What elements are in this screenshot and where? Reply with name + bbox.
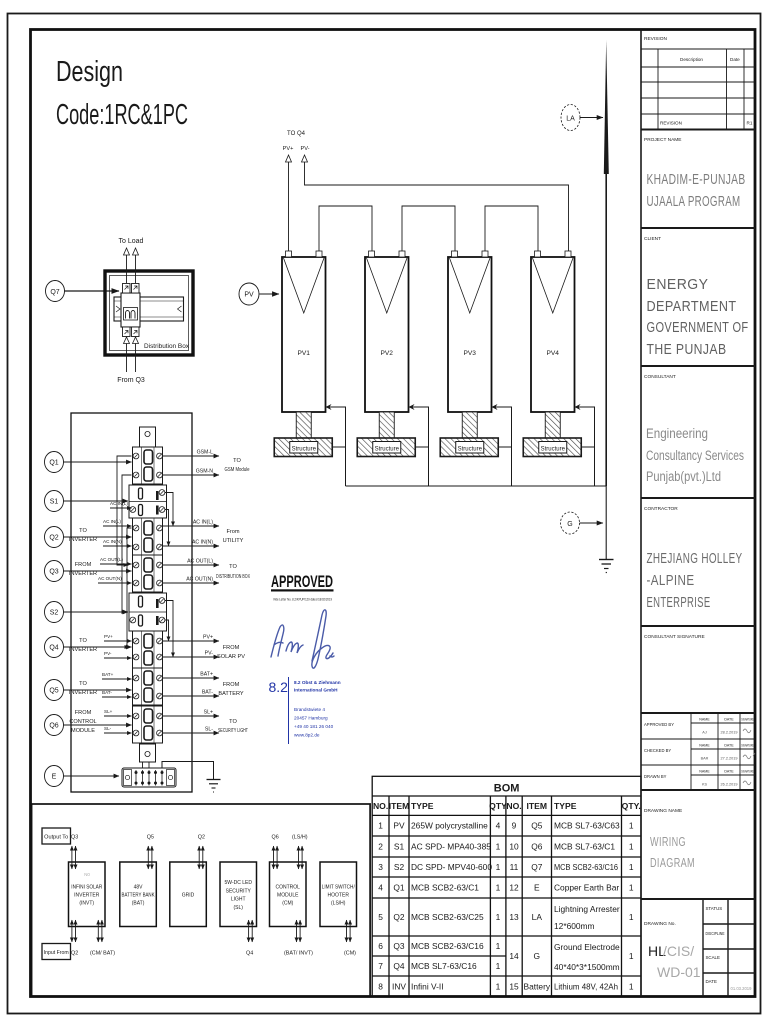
wire GSM-L out	[163, 450, 220, 457]
wire SL+ in	[104, 709, 132, 716]
svg-text:DC SPD- MPV40-600: DC SPD- MPV40-600	[411, 862, 492, 872]
svg-text:AC IN(N): AC IN(N)	[192, 540, 213, 546]
svg-text:TYPE: TYPE	[554, 801, 577, 811]
wire pair Q2-GRID	[199, 846, 203, 869]
svg-text:Distribution Box: Distribution Box	[144, 343, 190, 350]
node Q7	[46, 281, 65, 302]
svg-text:International GmbH: International GmbH	[294, 688, 338, 693]
wire AC IN(L) in	[103, 519, 132, 526]
svg-text:13: 13	[509, 912, 519, 922]
wire pair LSH-CM	[299, 846, 303, 869]
wire internal left 1	[117, 456, 132, 565]
security light SL	[220, 862, 257, 927]
svg-text:15: 15	[509, 981, 519, 991]
svg-text:1: 1	[496, 883, 501, 893]
grid	[170, 862, 207, 927]
wire SL- in	[104, 726, 132, 733]
svg-text:BAT-: BAT-	[102, 690, 112, 695]
svg-text:01.03.2019: 01.03.2019	[731, 986, 753, 991]
limit switch hooter LS/H	[320, 862, 357, 927]
svg-text:SIGNATURE: SIGNATURE	[741, 770, 754, 774]
breaker in distribution box	[121, 284, 140, 337]
svg-text:INVERTER: INVERTER	[69, 690, 97, 696]
svg-text:48V: 48V	[134, 884, 144, 890]
svg-text:REVISION: REVISION	[660, 121, 682, 126]
svg-text:FROM: FROM	[75, 562, 92, 568]
wire Q6 to terminal strip	[64, 724, 132, 726]
svg-text:5W-DC LED: 5W-DC LED	[225, 880, 253, 886]
svg-text:AC OUT(N): AC OUT(N)	[186, 577, 213, 583]
svg-text:DRAWING No.: DRAWING No.	[644, 921, 676, 927]
svg-text:3: 3	[378, 862, 383, 872]
wire Q5 to terminal strip	[64, 689, 132, 691]
svg-text:Description: Description	[680, 57, 703, 62]
wire S1 to AC rows	[165, 493, 173, 527]
block diagram enclosure	[32, 804, 371, 997]
wire Q2 to terminal strip	[64, 536, 132, 538]
breaker module Q2	[133, 518, 163, 555]
svg-text:PV-: PV-	[104, 651, 112, 656]
wire from Q3	[124, 337, 139, 372]
svg-text:GSM-L: GSM-L	[197, 450, 214, 456]
node Q3	[45, 561, 64, 582]
svg-text:N0: N0	[84, 872, 90, 877]
svg-text:Consultancy Services: Consultancy Services	[646, 448, 744, 463]
panel enclosure	[71, 413, 192, 792]
svg-text:THE PUNJAB: THE PUNJAB	[647, 341, 727, 358]
svg-text:AC IN(L): AC IN(L)	[110, 501, 128, 506]
svg-text:MODULE: MODULE	[277, 893, 299, 899]
svg-text:NAME: NAME	[699, 718, 710, 722]
wire PV to PV1	[260, 293, 280, 295]
svg-text:www.8p2.de: www.8p2.de	[294, 733, 320, 738]
title text Design Code	[56, 56, 188, 131]
svg-text:PV-: PV-	[300, 146, 309, 152]
svg-text:FROM: FROM	[75, 710, 92, 716]
svg-text:APPROVED: APPROVED	[271, 573, 333, 591]
structure pedestal PV4	[545, 412, 560, 438]
svg-text:Output To: Output To	[44, 835, 68, 841]
svg-text:Q3: Q3	[49, 569, 58, 576]
wire PV3 frame to ground bus	[492, 407, 512, 486]
svg-text:SIGNATURE: SIGNATURE	[741, 718, 754, 722]
svg-text:BAR: BAR	[701, 757, 709, 761]
svg-text:INVERTER: INVERTER	[69, 537, 97, 543]
revision table	[641, 49, 755, 130]
svg-text:-ALPINE: -ALPINE	[647, 573, 695, 589]
BOM data rows	[378, 821, 634, 992]
svg-text:11: 11	[510, 862, 519, 872]
section separators	[641, 130, 755, 900]
svg-text:(SL): (SL)	[234, 905, 244, 911]
structure bar PV1	[274, 438, 332, 457]
svg-text:1: 1	[629, 883, 634, 893]
logo company text	[294, 680, 341, 693]
svg-text:MCB SCB2-63/C1: MCB SCB2-63/C1	[411, 883, 479, 893]
label right side destinations	[216, 458, 250, 734]
svg-text:LA: LA	[532, 912, 543, 922]
node Q1	[45, 452, 64, 473]
approval table	[641, 713, 755, 790]
DIN rail	[114, 297, 184, 321]
svg-text:PV+: PV+	[203, 635, 213, 641]
copper earth bar E	[122, 768, 176, 787]
svg-text:(CM): (CM)	[344, 951, 356, 957]
svg-text:Q5: Q5	[147, 835, 154, 841]
lightning arrester LA pole	[604, 40, 609, 174]
wire PV+ in	[104, 634, 132, 641]
wire PV- in	[104, 651, 132, 658]
solar panel PV4	[531, 251, 575, 412]
svg-text:NAME: NAME	[699, 770, 710, 774]
svg-text:PV2: PV2	[381, 350, 394, 357]
wire AC OUT(L) out	[163, 559, 220, 566]
svg-text:QTY.: QTY.	[622, 801, 641, 811]
wire PV- out	[163, 651, 220, 658]
svg-text:(INVT): (INVT)	[79, 901, 94, 907]
wire AC IN(N) out	[163, 540, 220, 547]
svg-text:1: 1	[496, 912, 501, 922]
svg-text:(CM): (CM)	[282, 901, 293, 907]
wire AC OUT(L) in	[100, 557, 132, 564]
svg-text:G: G	[567, 521, 572, 528]
wire S2 to terminal strip	[64, 611, 129, 613]
svg-text:SECURITY: SECURITY	[226, 888, 252, 894]
strip end module top	[140, 427, 156, 447]
svg-text:MCB SCB2-63/C16: MCB SCB2-63/C16	[554, 862, 618, 872]
svg-text:CHECKED BY: CHECKED BY	[644, 748, 671, 753]
svg-text:CONTROL: CONTROL	[69, 719, 96, 725]
svg-text:SCALE: SCALE	[706, 955, 720, 960]
svg-text:Q4: Q4	[246, 951, 253, 957]
wire SL- out	[163, 727, 220, 734]
svg-text:PV: PV	[244, 292, 254, 299]
svg-text:GRID: GRID	[182, 893, 195, 899]
svg-text:S1: S1	[50, 499, 59, 506]
label Input From	[42, 944, 71, 960]
svg-text:ZHEJIANG HOLLEY: ZHEJIANG HOLLEY	[647, 551, 743, 567]
wire pair Q5-BAT	[148, 846, 152, 869]
wire structure PV2 to ground bus	[415, 446, 428, 448]
svg-text:ITEM: ITEM	[527, 801, 548, 811]
svg-text:DISTRIBUTION BOX: DISTRIBUTION BOX	[216, 574, 250, 580]
svg-text:BOM: BOM	[494, 783, 520, 795]
wire pair INVT-CMBAT	[98, 920, 102, 942]
svg-text:ENTERPRISE: ENTERPRISE	[647, 595, 711, 611]
svg-text:1: 1	[378, 821, 383, 831]
svg-text:9: 9	[512, 821, 517, 831]
svg-text:Q5: Q5	[49, 688, 58, 695]
svg-text:1: 1	[496, 961, 501, 971]
node G	[561, 512, 580, 534]
svg-text:6: 6	[378, 941, 383, 951]
structure pedestal PV3	[462, 412, 477, 438]
svg-text:TYPE: TYPE	[411, 801, 434, 811]
svg-text:APPROVED BY: APPROVED BY	[644, 722, 674, 727]
svg-text:AC IN(L): AC IN(L)	[103, 519, 121, 524]
svg-text:(LS/H): (LS/H)	[331, 901, 346, 907]
svg-text:HOOTER: HOOTER	[328, 893, 350, 899]
node E	[45, 766, 64, 787]
svg-text:WIRING: WIRING	[650, 834, 686, 849]
svg-text:Brandstwiete 4: Brandstwiete 4	[294, 707, 325, 712]
svg-text:BATTERY: BATTERY	[218, 691, 244, 697]
svg-text:Q4: Q4	[49, 645, 58, 652]
svg-text:INFINI SOLAR: INFINI SOLAR	[71, 884, 102, 890]
structure pedestal PV2	[379, 412, 394, 438]
wire AC OUT(N) out	[163, 577, 220, 584]
wire SL+ out	[163, 710, 220, 717]
svg-text:PV+: PV+	[283, 146, 294, 152]
svg-text:1: 1	[629, 912, 634, 922]
node PV	[239, 283, 259, 305]
svg-text:SOLAR PV: SOLAR PV	[217, 654, 245, 660]
svg-text:ENERGY: ENERGY	[647, 276, 709, 293]
svg-text:1: 1	[496, 862, 501, 872]
svg-text:Infini V-II: Infini V-II	[411, 981, 444, 991]
wire Q7 to breaker	[65, 290, 120, 292]
svg-text:7: 7	[378, 961, 383, 971]
wire structure PV4 to ground bus	[581, 446, 594, 448]
wire PV4 frame to ground bus	[575, 407, 595, 486]
wire pair Q3-INVT	[72, 846, 76, 869]
svg-text:INVERTER: INVERTER	[69, 647, 97, 653]
svg-text:8.2: 8.2	[269, 679, 289, 695]
svg-text:R1: R1	[747, 121, 753, 126]
svg-text:8.2 Obst & Ziehmann: 8.2 Obst & Ziehmann	[294, 680, 341, 685]
svg-text:CLIENT: CLIENT	[644, 236, 661, 242]
svg-text:MCB SCB2-63/C25: MCB SCB2-63/C25	[411, 912, 484, 922]
wire Q1 to terminal strip	[64, 461, 132, 463]
svg-text:Q1: Q1	[49, 460, 58, 467]
svg-text:Q7: Q7	[531, 862, 543, 872]
wire PV minus return	[305, 162, 569, 251]
SPD module S1	[129, 485, 167, 518]
label left side sources	[69, 528, 97, 734]
svg-text:LIMIT SWITCH/: LIMIT SWITCH/	[322, 884, 356, 890]
svg-text:NAME: NAME	[699, 744, 710, 748]
svg-text:1: 1	[496, 941, 501, 951]
svg-text:CONTRACTOR: CONTRACTOR	[644, 506, 678, 512]
svg-text:4: 4	[496, 821, 501, 831]
svg-text:Design: Design	[56, 56, 123, 88]
wire internal left 3	[127, 528, 132, 647]
structure bar PV3	[440, 438, 498, 457]
svg-text:SL-: SL-	[104, 726, 112, 731]
svg-text:PV1: PV1	[298, 350, 311, 357]
wire pair Q6-CM	[274, 846, 278, 869]
svg-text:QTY: QTY	[489, 801, 507, 811]
solar panel PV2	[365, 251, 409, 412]
svg-text:1: 1	[629, 821, 634, 831]
svg-text:PV4: PV4	[547, 350, 560, 357]
svg-text:Structure: Structure	[541, 447, 566, 453]
wire pair INVT-Q2	[72, 920, 76, 942]
svg-text:E: E	[534, 883, 540, 893]
svg-text:Q2: Q2	[49, 535, 58, 542]
wire earth bar to ground	[162, 762, 214, 780]
svg-text:Q5: Q5	[531, 821, 543, 831]
svg-text:Date: Date	[730, 57, 740, 62]
svg-text:1: 1	[496, 842, 501, 852]
svg-text:DATE: DATE	[724, 744, 734, 748]
svg-text:NO.: NO.	[506, 801, 521, 811]
svg-text:1: 1	[629, 981, 634, 991]
solar panel PV3	[448, 251, 492, 412]
svg-text:TO: TO	[229, 719, 237, 725]
DIN rail backbone	[141, 447, 143, 762]
labels top connections	[71, 835, 308, 841]
wire pair CM-BATINVT	[297, 920, 301, 942]
svg-text:AC OUT(N): AC OUT(N)	[98, 576, 122, 581]
svg-text:PROJECT NAME: PROJECT NAME	[644, 137, 682, 143]
wire internal left 2	[122, 475, 132, 612]
svg-text:Structure: Structure	[292, 447, 317, 453]
svg-text:AC OUT(L): AC OUT(L)	[100, 557, 123, 562]
svg-text:MCB SL7-63/C1: MCB SL7-63/C1	[554, 842, 615, 852]
svg-text:Lithium 48V, 42Ah: Lithium 48V, 42Ah	[554, 981, 618, 991]
svg-text:CONSULTANT: CONSULTANT	[644, 374, 676, 380]
svg-text:MCB SL7-63/C16: MCB SL7-63/C16	[411, 961, 477, 971]
wire series link PV3-PV4	[485, 206, 538, 251]
strip end module bottom	[140, 744, 156, 762]
wire ground bus	[346, 485, 607, 487]
svg-text:STATUS: STATUS	[706, 906, 723, 911]
svg-text:UJAALA PROGRAM: UJAALA PROGRAM	[647, 193, 741, 210]
svg-text:WD-01: WD-01	[657, 964, 701, 980]
wire LA to pole	[580, 117, 603, 119]
solar panel PV1	[282, 251, 326, 412]
svg-text:DATE: DATE	[724, 770, 734, 774]
wire PV+ out	[163, 635, 220, 642]
wire AC OUT(N) in	[98, 576, 132, 583]
wire E to terminal strip	[64, 775, 120, 777]
wire to load L	[124, 248, 139, 283]
wire PV1 frame to ground bus	[326, 407, 346, 486]
breaker module Q1	[133, 447, 163, 484]
svg-text:DRAWING NAME: DRAWING NAME	[644, 808, 682, 814]
svg-text:LIGHT: LIGHT	[231, 897, 246, 903]
wire structure PV3 to ground bus	[498, 446, 511, 448]
svg-text:Code:1RC&1PC: Code:1RC&1PC	[56, 99, 188, 131]
svg-text:SECURITY LIGHT: SECURITY LIGHT	[218, 728, 248, 734]
wire series link PV2-PV3	[402, 206, 455, 251]
node S1	[45, 491, 64, 512]
svg-text:(BAT): (BAT)	[132, 901, 145, 907]
svg-text:REVISION: REVISION	[644, 36, 667, 42]
BOM header row	[373, 801, 641, 811]
svg-text:DRAWN BY: DRAWN BY	[644, 774, 667, 779]
svg-text:5: 5	[378, 912, 383, 922]
svg-text:Engineering: Engineering	[646, 426, 708, 441]
svg-text:E: E	[52, 774, 57, 781]
wire pair SL-Q4	[249, 920, 253, 942]
svg-text:Q7: Q7	[50, 289, 59, 296]
svg-text:GSM Module: GSM Module	[225, 467, 250, 473]
node Q4	[45, 637, 64, 658]
wire Q4 to terminal strip	[64, 646, 132, 648]
svg-text:NO.: NO.	[373, 801, 388, 811]
svg-text:(LS/H): (LS/H)	[292, 835, 308, 841]
svg-text:SL+: SL+	[104, 709, 113, 714]
svg-text:Ground Electrode: Ground Electrode	[554, 942, 620, 952]
svg-text:AC IN(L): AC IN(L)	[193, 520, 213, 526]
SPD module S2	[129, 593, 167, 631]
svg-text:INVERTER: INVERTER	[69, 571, 97, 577]
svg-text:Vide Letter No. 8.2/KPUP/129 d: Vide Letter No. 8.2/KPUP/129 dated 18/02…	[273, 598, 332, 602]
wire ground stem	[605, 486, 607, 559]
svg-text:TO: TO	[79, 638, 87, 644]
wire PV2 frame to ground bus	[409, 407, 429, 486]
wire pair LSH-CM2	[347, 920, 351, 942]
svg-text:DISCIPLINE: DISCIPLINE	[706, 931, 725, 936]
svg-text:TO: TO	[233, 458, 241, 464]
svg-text:GSM-N: GSM-N	[196, 469, 214, 475]
approval signatures squiggles	[743, 729, 755, 785]
svg-text:DIAGRAM: DIAGRAM	[650, 855, 695, 870]
wire S1 to terminal strip	[64, 500, 129, 502]
svg-text:SL-: SL-	[205, 727, 213, 733]
svg-text:DATE: DATE	[706, 979, 717, 984]
svg-text:PV: PV	[393, 821, 405, 831]
wire AC IN(L) out	[163, 520, 220, 527]
svg-text:FROM: FROM	[223, 682, 240, 688]
battery bank BAT	[120, 862, 157, 927]
breaker module Q4	[133, 631, 163, 668]
svg-text:Q6: Q6	[272, 835, 279, 841]
svg-text:SIGNATURE: SIGNATURE	[741, 744, 754, 748]
svg-text:DEPARTMENT: DEPARTMENT	[647, 298, 737, 315]
status sub table	[703, 899, 755, 997]
svg-text:2: 2	[378, 842, 383, 852]
svg-text:TO: TO	[229, 564, 237, 570]
node Q2	[45, 527, 64, 548]
logo address text	[294, 707, 334, 738]
svg-text:TO: TO	[79, 528, 87, 534]
signature blue	[271, 610, 334, 668]
svg-text:BAT+: BAT+	[200, 672, 213, 678]
svg-text:To Load: To Load	[119, 238, 144, 245]
svg-text:BAT-: BAT-	[202, 690, 213, 696]
svg-text:1: 1	[629, 862, 634, 872]
breaker module Q6	[133, 706, 163, 743]
svg-text:Structure: Structure	[458, 447, 483, 453]
wire S2 to PV rows	[165, 601, 173, 658]
svg-text:TO: TO	[79, 681, 87, 687]
svg-text:8: 8	[378, 981, 383, 991]
ground electrode symbol	[599, 560, 614, 573]
svg-text:UTILITY: UTILITY	[223, 538, 244, 544]
svg-text:LA: LA	[566, 116, 575, 123]
svg-text:Punjab(pvt.)Ltd: Punjab(pvt.)Ltd	[646, 469, 721, 484]
structure pedestal PV1	[296, 412, 311, 438]
wire AC IN(L) in	[110, 501, 132, 508]
svg-text:20457 Hamburg: 20457 Hamburg	[294, 716, 328, 721]
svg-text:BAT+: BAT+	[102, 672, 114, 677]
svg-text:Q6: Q6	[531, 842, 543, 852]
svg-text:PV3: PV3	[464, 350, 477, 357]
svg-text:ITEM: ITEM	[389, 801, 410, 811]
wire BAT- in	[102, 690, 132, 697]
svg-text:AJ: AJ	[702, 731, 707, 735]
inverter INVT	[69, 862, 106, 927]
structure bar PV4	[523, 438, 581, 457]
svg-text:+49 40 181 26 040: +49 40 181 26 040	[294, 724, 334, 729]
svg-text:Q1: Q1	[393, 883, 405, 893]
svg-text:28.2.2019: 28.2.2019	[721, 731, 738, 735]
svg-text:AC OUT(L): AC OUT(L)	[187, 559, 213, 565]
svg-text:10: 10	[509, 842, 519, 852]
